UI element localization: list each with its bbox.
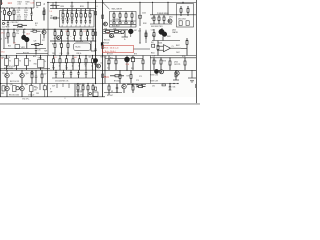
- wire j bot: [52, 77, 96, 79]
- svg-text:R601: R601: [152, 35, 156, 37]
- capacitor CB2: [66, 19, 69, 27]
- label red b-v1: [50, 11, 52, 13]
- svg-text:R41: R41: [105, 28, 108, 30]
- svg-text:R37: R37: [52, 43, 55, 45]
- resistor RC4: [131, 12, 133, 22]
- label d1: [157, 13, 169, 15]
- transistor QI2: [20, 70, 24, 83]
- wire top rail: [47, 1, 196, 3]
- svg-text:C117 R119: C117 R119: [2, 27, 10, 29]
- svg-text:D61: D61: [151, 42, 154, 44]
- svg-text:4 x 2SC945: 4 x 2SC945: [112, 19, 120, 21]
- svg-text:D901 D902 T901: D901 D902 T901: [151, 26, 163, 28]
- svg-text:R607: R607: [176, 45, 180, 47]
- label fillD4: [151, 18, 155, 20]
- label c2: [112, 19, 120, 21]
- label fillI3: [2, 73, 5, 75]
- svg-text:R12: R12: [35, 23, 38, 25]
- resistor RL2: [160, 58, 162, 71]
- wire b-net: [50, 2, 60, 8]
- wire fillO2: [116, 84, 118, 94]
- resistor RF1: [54, 29, 57, 41]
- transistor QG3: [121, 30, 125, 34]
- label e-45: [0, 38, 2, 40]
- node dL: [153, 57, 185, 58]
- label red 11.6: [8, 3, 13, 5]
- mark corner: [1, 0, 3, 5]
- resistor RK4: [110, 75, 124, 77]
- label i3: [11, 73, 29, 75]
- capacitor fillV4: [95, 87, 97, 90]
- svg-text:R94 10k: R94 10k: [77, 92, 83, 94]
- node dB: [55, 2, 96, 3]
- label e4: [23, 52, 29, 54]
- resistor RK2: [115, 56, 117, 71]
- svg-text:Q53: Q53: [26, 73, 29, 75]
- svg-text:C57: C57: [44, 74, 47, 76]
- resistor RN2: [82, 84, 84, 97]
- label e6: [34, 41, 37, 43]
- wire fillE2: [47, 29, 49, 55]
- capacitor CJ1: [55, 70, 57, 78]
- label big2: [44, 2, 46, 6]
- resistor RJ4: [72, 56, 74, 71]
- label l-extra: [182, 56, 186, 58]
- svg-text:c5: c5: [84, 25, 86, 27]
- wire vC: [139, 2, 142, 26]
- resistor RD4: [158, 15, 160, 24]
- label fillL1: [153, 60, 166, 62]
- svg-text:IC601: IC601: [158, 42, 162, 44]
- svg-text:10/16: 10/16: [17, 17, 21, 19]
- svg-text:GND SP-L: GND SP-L: [22, 98, 30, 100]
- svg-text:c1: c1: [66, 25, 68, 27]
- wire qh: [162, 28, 163, 41]
- capacitor CB5: [80, 19, 83, 27]
- node dE: [7, 29, 44, 30]
- label m3: [10, 84, 28, 86]
- svg-text:R61 2.2k C61: R61 2.2k C61: [10, 81, 19, 83]
- label j-extra: [84, 64, 87, 66]
- label n2: [77, 95, 84, 97]
- wire e bot: [3, 48, 46, 50]
- resistor RJ3: [65, 56, 67, 71]
- svg-text:1k: 1k: [91, 65, 93, 67]
- wire rail h83: [0, 83, 178, 85]
- box E-VR: [15, 45, 20, 49]
- label fillA2: [35, 23, 38, 27]
- resistor RB5: [79, 9, 82, 20]
- label below-rail-1: [22, 98, 30, 100]
- node dD1: [152, 2, 184, 3]
- node dI: [6, 55, 41, 56]
- wire fillB2: [56, 2, 88, 8]
- label fillG3: [134, 30, 137, 32]
- resistor RE1: [7, 29, 9, 43]
- svg-text:C37: C37: [59, 43, 62, 45]
- label red 17.6: [1, 32, 6, 34]
- svg-text:C43: C43: [138, 30, 141, 32]
- label m1: [9, 94, 19, 96]
- svg-text:Q81: Q81: [10, 84, 13, 86]
- label red j2: [74, 57, 77, 59]
- node dJ: [53, 55, 93, 56]
- label g1: [122, 33, 125, 35]
- svg-text:R81 C81 10/16: R81 C81 10/16: [9, 94, 19, 96]
- label f3: [77, 53, 82, 55]
- capacitor CJ4: [77, 70, 79, 78]
- svg-text:25.8: 25.8: [26, 33, 30, 35]
- label fillF1: [52, 43, 62, 45]
- label e7: [32, 29, 35, 31]
- capacitor CF9: [94, 44, 96, 56]
- label a-col2: [24, 10, 28, 21]
- svg-text:R26: R26: [32, 29, 35, 31]
- resistor RD5: [163, 15, 165, 24]
- wire vD1: [167, 2, 169, 14]
- label d-extra: [169, 17, 173, 19]
- label h3: [158, 42, 162, 44]
- resistor RD1: [180, 6, 182, 16]
- label f-box: [76, 47, 81, 49]
- transistor QJ9: [97, 64, 101, 68]
- wire railB: [50, 8, 96, 10]
- svg-text:6: 6: [97, 6, 98, 8]
- svg-text:12k: 12k: [16, 33, 19, 35]
- svg-text:+: +: [5, 23, 6, 25]
- svg-text:R111: R111: [17, 10, 21, 12]
- wire o top: [127, 84, 146, 88]
- svg-text:C61: C61: [151, 30, 154, 32]
- svg-text:T1: T1: [9, 60, 11, 62]
- label f2: [76, 41, 84, 43]
- wire fillP2: [150, 87, 161, 89]
- svg-text:C901 C903: C901 C903: [178, 19, 186, 21]
- label k7: [139, 76, 142, 78]
- capacitor CB6: [84, 19, 87, 27]
- transistor QM1: [5, 84, 9, 97]
- resistor RL1: [153, 58, 155, 71]
- resistor RN1: [77, 84, 79, 97]
- label m-extra: [1, 93, 4, 95]
- svg-text:Q95: Q95: [127, 84, 130, 86]
- svg-text:Q605: Q605: [172, 30, 176, 32]
- wire fillK6: [105, 58, 143, 60]
- svg-text:R305 : 20.1k L-ch: R305 : 20.1k L-ch: [104, 48, 119, 50]
- svg-text:c2: c2: [71, 25, 73, 27]
- label j4: [89, 56, 92, 58]
- svg-text:R43: R43: [114, 28, 117, 30]
- resistor RF20: [54, 41, 56, 56]
- svg-text:1k: 1k: [26, 4, 28, 6]
- svg-text:10k: 10k: [86, 38, 89, 40]
- svg-text:45: 45: [0, 38, 2, 40]
- svg-text:12k: 12k: [92, 38, 95, 40]
- resistor RF7: [92, 29, 95, 41]
- svg-text:8k: 8k: [80, 38, 82, 40]
- svg-text:R24: R24: [8, 45, 11, 47]
- wire h mid: [152, 40, 180, 42]
- resistor RB6: [84, 9, 87, 20]
- label j3: [55, 81, 69, 83]
- svg-text:1.4: 1.4: [50, 11, 52, 13]
- svg-text:R115: R115: [24, 14, 28, 16]
- capacitor fillV2: [95, 32, 104, 48]
- wire vM: [47, 84, 49, 97]
- node dP: [169, 83, 178, 84]
- transistor QL1: [155, 70, 159, 74]
- wire vE: [3, 29, 5, 48]
- box D right: [177, 4, 194, 28]
- wire railF mid: [50, 40, 96, 42]
- wire vB2: [47, 2, 49, 29]
- svg-text:1k: 1k: [101, 62, 103, 64]
- svg-text:R71: R71: [107, 64, 110, 66]
- node fill-l-edge2: [0, 7, 1, 84]
- label e1: [16, 31, 19, 35]
- svg-text:Q705: Q705: [174, 62, 178, 64]
- label fillL2: [151, 80, 159, 82]
- svg-text:R77 C77: R77 C77: [107, 54, 113, 56]
- resistor RC2: [119, 12, 121, 22]
- label box-b row: [61, 18, 74, 20]
- svg-text:R701: R701: [153, 60, 157, 62]
- box F round: [74, 43, 91, 51]
- label fillI1: [33, 56, 36, 58]
- svg-text:C111: C111: [17, 14, 21, 16]
- svg-text:R201: R201: [61, 6, 65, 8]
- label p1: [173, 87, 176, 89]
- svg-text:8: 8: [65, 98, 66, 100]
- transistor QO1: [122, 84, 126, 94]
- resistor RI6: [41, 70, 43, 83]
- wire vN: [74, 84, 76, 97]
- capacitor CJ3: [70, 70, 72, 78]
- wire railL: [150, 57, 196, 59]
- transistor QL2: [160, 70, 164, 74]
- label fillM1: [36, 93, 39, 95]
- label n-row2: [77, 92, 83, 94]
- label red g-row2: [104, 51, 116, 53]
- label n6: [77, 91, 83, 93]
- wire lower A: [2, 20, 33, 22]
- capacitor CJ5: [85, 70, 87, 78]
- label fillH3: [176, 52, 180, 54]
- resistor RF3: [67, 29, 70, 41]
- svg-text:Q51: Q51: [11, 73, 14, 75]
- label a-extra: [31, 12, 33, 14]
- wire vB: [33, 0, 35, 8]
- label fillE1: [17, 27, 23, 29]
- label i4: [2, 57, 11, 59]
- capacitor CB7: [89, 19, 92, 27]
- svg-text:C85: C85: [1, 93, 4, 95]
- resistor RJ1: [52, 56, 54, 71]
- label fillB1: [61, 6, 84, 8]
- label fillG4: [103, 43, 109, 45]
- label i7: [34, 63, 37, 65]
- wire left border: [0, 0, 2, 97]
- label g5: [109, 37, 115, 39]
- resistor RI1: [5, 56, 12, 71]
- label h-extra: [154, 47, 155, 49]
- svg-text:POWER SW901: POWER SW901: [157, 13, 169, 15]
- capacitor g-dark: [101, 42, 103, 45]
- capacitor CE1: [35, 45, 41, 55]
- svg-text:1k: 1k: [65, 65, 67, 67]
- resistor RB4: [75, 9, 78, 20]
- svg-text:C71: C71: [107, 68, 110, 70]
- svg-text:C115 R117: C115 R117: [11, 22, 19, 24]
- label i2: [10, 81, 19, 83]
- svg-text:47k: 47k: [17, 12, 20, 14]
- label n1: [76, 84, 85, 86]
- label k4: [127, 76, 130, 78]
- resistor fillL3: [173, 70, 179, 80]
- wire l stub: [188, 70, 196, 78]
- resistor fillG2: [145, 31, 147, 39]
- svg-text:L: L: [0, 19, 1, 21]
- label l-extra2: [153, 56, 156, 58]
- svg-text:C83: C83: [36, 93, 39, 95]
- wire mid rail h55: [0, 55, 196, 57]
- svg-text:R901: R901: [151, 18, 155, 20]
- svg-text:R2: R2: [36, 7, 38, 9]
- label fillA1: [2, 27, 10, 29]
- label o2: [127, 84, 130, 86]
- svg-text:C205: C205: [142, 13, 146, 15]
- node dB2: [95, 8, 96, 9]
- label k-top: [107, 54, 137, 56]
- svg-text:RL201: RL201: [76, 47, 81, 49]
- svg-text:C73: C73: [136, 80, 139, 82]
- svg-text:0.6: 0.6: [74, 57, 77, 59]
- capacitor CB3: [71, 19, 74, 27]
- svg-text:R203: R203: [80, 6, 84, 8]
- svg-text:0k: 0k: [54, 38, 56, 40]
- svg-text:R709: R709: [182, 56, 186, 58]
- resistor RN4: [92, 84, 94, 97]
- svg-text:6.2: 6.2: [84, 31, 86, 33]
- svg-text:R13 C13: R13 C13: [17, 27, 23, 29]
- resistor R104: [13, 24, 27, 26]
- svg-text:c4: c4: [80, 25, 82, 27]
- wire c inner: [110, 21, 136, 24]
- label k1: [131, 57, 134, 59]
- capacitor CP1: [169, 84, 172, 91]
- svg-text:c0: c0: [62, 25, 64, 27]
- svg-text:C4: C4: [31, 12, 33, 14]
- wire fillH4: [181, 48, 187, 50]
- label g2: [104, 40, 110, 42]
- svg-text:C45 R47: C45 R47: [109, 37, 115, 39]
- svg-text:C95: C95: [173, 87, 176, 89]
- resistor R101: [1, 8, 6, 21]
- svg-text:SP: SP: [50, 92, 52, 94]
- wire railJ70: [50, 69, 100, 71]
- svg-text:4.7k 0.22: 4.7k 0.22: [28, 94, 34, 96]
- resistor RI3: [25, 56, 32, 71]
- svg-text:C95: C95: [152, 86, 155, 88]
- svg-text:SP: SP: [111, 91, 113, 93]
- label red g-row1: [104, 48, 119, 50]
- label e3: [21, 47, 25, 49]
- transistor n5: [89, 92, 91, 94]
- label red 1.8: [0, 3, 3, 5]
- label d3: [151, 26, 163, 28]
- wire railI70: [0, 69, 50, 71]
- ground G-L: [190, 81, 194, 82]
- svg-text:c6: c6: [89, 25, 91, 27]
- label red j1: [54, 57, 57, 59]
- resistor RB8: [54, 17, 57, 19]
- label h2: [172, 30, 178, 34]
- label fillK5: [110, 58, 113, 60]
- svg-text:T3: T3: [29, 60, 31, 62]
- svg-text:C75: C75: [139, 76, 142, 78]
- transistor QK1: [125, 56, 130, 71]
- label a-bot2: [20, 27, 23, 29]
- label fillJ1: [52, 68, 68, 70]
- resistor RC1: [113, 12, 115, 22]
- label l2: [151, 74, 159, 76]
- wire railK70: [100, 69, 150, 71]
- label h4: [176, 45, 180, 47]
- resistor RO2: [132, 84, 134, 94]
- svg-text:C91 47/63: C91 47/63: [77, 95, 84, 97]
- label m7: [34, 86, 37, 91]
- transistor QE4: [25, 37, 29, 48]
- node fillA5: [43, 7, 44, 8]
- capacitor C102: [5, 21, 9, 27]
- svg-text:1k: 1k: [124, 39, 126, 41]
- box I-VR: [38, 56, 45, 71]
- resistor fillH2: [157, 41, 159, 56]
- wire fillJ2: [92, 70, 94, 78]
- resistor RJ6: [85, 56, 87, 71]
- label i-row2: [6, 66, 15, 68]
- svg-text:R50 C50 T51: R50 C50 T51: [2, 57, 11, 59]
- node dF: [54, 29, 96, 42]
- resistor m4: [2, 86, 5, 91]
- label g-extra2: [124, 39, 126, 41]
- resistor RH1: [153, 29, 155, 41]
- svg-text:C113: C113: [24, 10, 28, 12]
- wire vD0: [152, 2, 154, 15]
- label a-col1: [17, 10, 21, 21]
- wire railE: [0, 28, 96, 30]
- wire vI: [47, 56, 49, 84]
- resistor RD2: [187, 6, 189, 16]
- wire g stub: [122, 30, 129, 37]
- wire e-rail2: [16, 52, 48, 54]
- wire railD: [150, 14, 196, 16]
- wire fillG1: [145, 30, 147, 43]
- wire sheet bottom edge: [0, 103, 200, 105]
- box red G: [103, 45, 134, 52]
- transistor QI1: [5, 70, 9, 83]
- label red k2: [126, 64, 130, 66]
- svg-text:1k: 1k: [35, 25, 37, 27]
- label m2: [36, 88, 39, 90]
- resistor RP1: [162, 84, 165, 86]
- capacitor CB4: [75, 19, 78, 27]
- wire e-v40: [40, 34, 42, 45]
- svg-text:( R-ch : 20.0k ): ( R-ch : 20.0k ): [104, 51, 116, 53]
- label red top-c: [31, 3, 35, 5]
- label red f-v1: [66, 31, 68, 33]
- label c1: [112, 9, 123, 11]
